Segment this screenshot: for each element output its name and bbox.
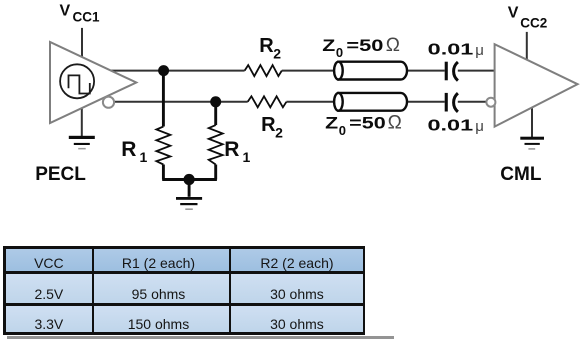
svg-text:0: 0 xyxy=(339,123,346,138)
svg-text:V: V xyxy=(508,5,519,22)
svg-text:R: R xyxy=(261,114,276,136)
svg-text:PECL: PECL xyxy=(35,164,86,185)
svg-text:R: R xyxy=(224,138,239,161)
svg-text:1: 1 xyxy=(140,149,148,165)
svg-text:Ω: Ω xyxy=(388,113,402,134)
svg-text:0.01: 0.01 xyxy=(428,117,474,134)
svg-text:1: 1 xyxy=(243,149,251,165)
svg-text:CC2: CC2 xyxy=(520,15,547,30)
svg-text:2: 2 xyxy=(275,125,283,141)
svg-text:=50: =50 xyxy=(346,36,383,55)
svg-text:CC1: CC1 xyxy=(73,10,100,25)
svg-text:=50: =50 xyxy=(349,114,386,133)
svg-text:0: 0 xyxy=(336,45,343,60)
svg-text:Z: Z xyxy=(325,114,338,133)
svg-text:V: V xyxy=(60,3,71,20)
svg-text:Z: Z xyxy=(322,36,335,55)
svg-text:CML: CML xyxy=(500,164,542,185)
svg-text:Ω: Ω xyxy=(386,35,400,56)
svg-text:2: 2 xyxy=(273,46,281,62)
svg-text:0.01: 0.01 xyxy=(428,42,474,59)
svg-text:μ: μ xyxy=(475,42,484,59)
svg-text:R: R xyxy=(259,35,274,57)
svg-text:μ: μ xyxy=(475,118,484,135)
svg-text:R: R xyxy=(121,138,136,161)
